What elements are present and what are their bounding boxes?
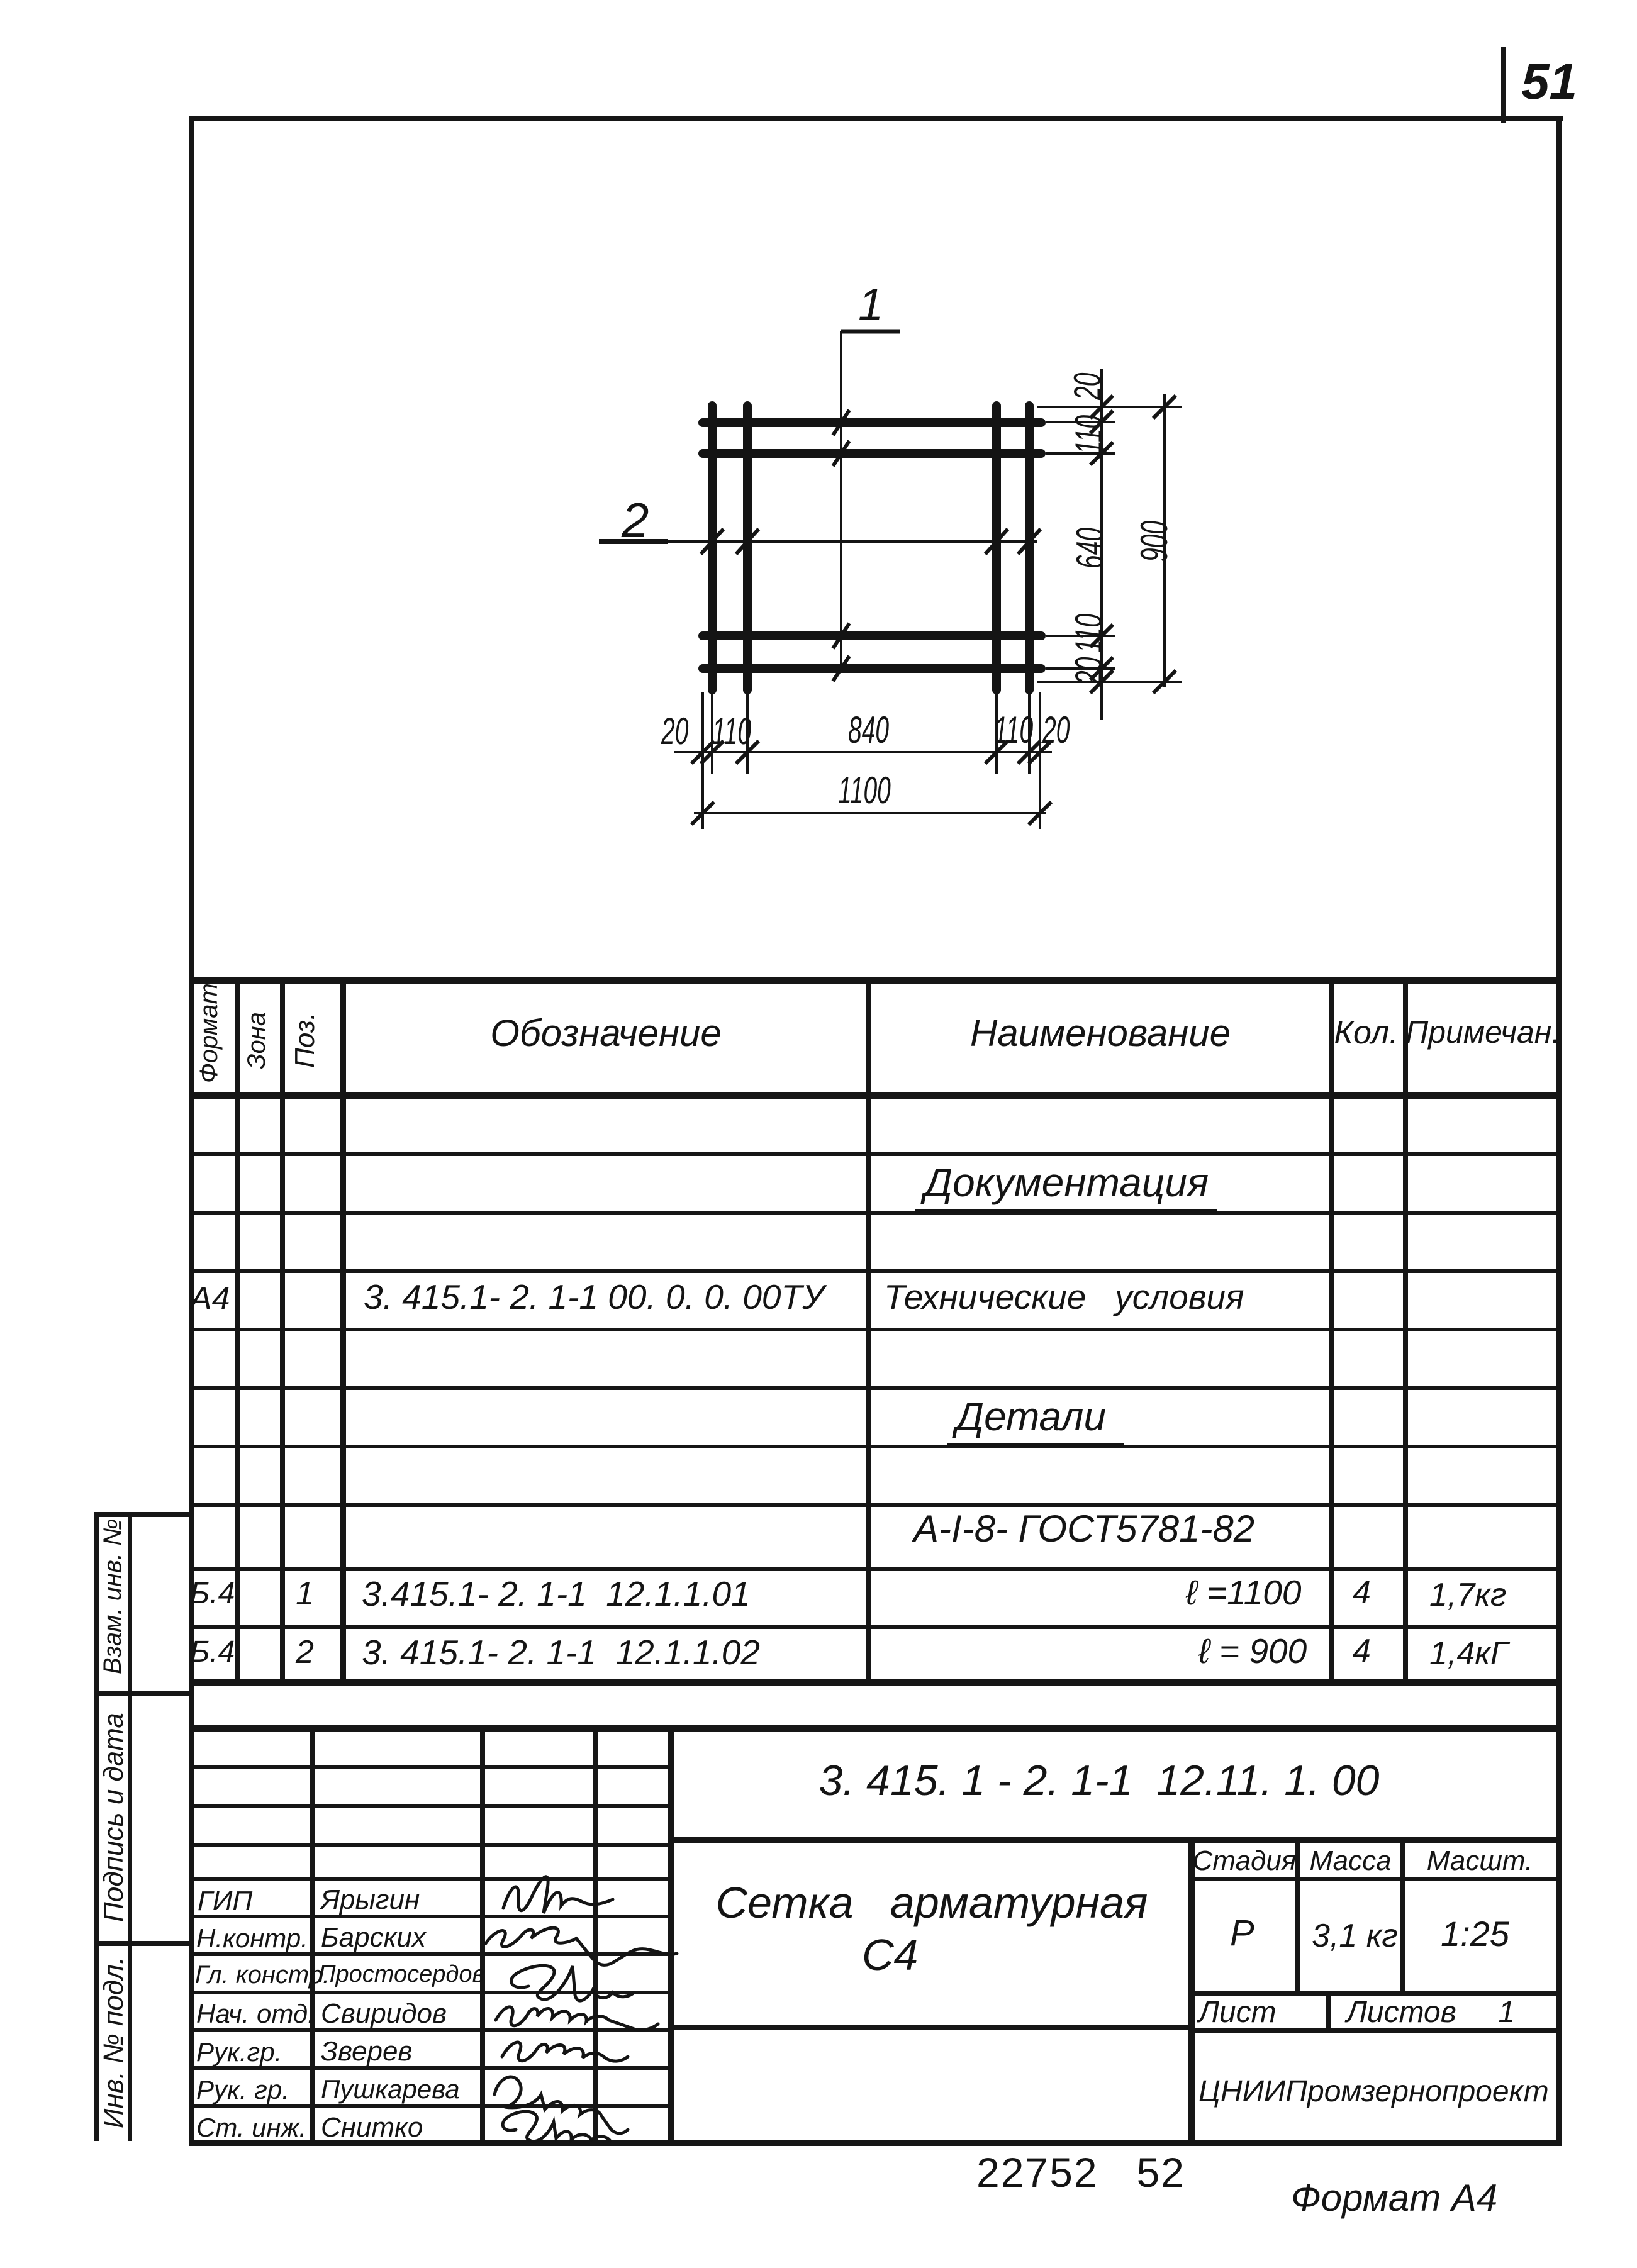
- title block upper row line 3: [189, 1843, 668, 1847]
- extension line right bar3: [1046, 635, 1115, 637]
- row 1 qty: [1353, 1574, 1371, 1611]
- sig label Ст.инж.: [196, 2113, 306, 2143]
- title block col line 1 (labels/names): [310, 1725, 315, 2142]
- frame bottom border: [189, 2140, 1562, 2146]
- sig name Барских: [321, 1922, 426, 1954]
- dim tick b6: [1029, 741, 1051, 764]
- page number tick line: [1501, 47, 1506, 123]
- label Масса: [1299, 1845, 1402, 1877]
- title block sig row line 5: [189, 2066, 668, 2070]
- dim tick r4: [1090, 625, 1113, 647]
- extension line bottom v3: [995, 692, 998, 774]
- dim tick 1100 right: [1029, 802, 1051, 825]
- value 1:25: [1441, 1913, 1509, 1954]
- header label Кол.: [1329, 1014, 1403, 1052]
- signature Простосердов: [511, 1965, 634, 2001]
- extension line bottom v1: [711, 692, 713, 774]
- org name ЦНИИПромзернопроект: [1198, 2074, 1549, 2109]
- dim tick b2: [701, 741, 724, 764]
- spec table header bottom line: [189, 1092, 1560, 1099]
- title С4: [862, 1930, 918, 1980]
- title block sig row line 0: [189, 1877, 668, 1881]
- dim label 900 (rotated): [1132, 521, 1176, 562]
- steel grade А-I-8-ГОСТ5781-82: [913, 1507, 1254, 1550]
- format note: [1291, 2176, 1497, 2220]
- dim tick r2: [1090, 411, 1113, 433]
- header label Формат (rotated): [195, 983, 223, 1083]
- dim label 840: [848, 708, 889, 752]
- row 2 qty: [1353, 1632, 1371, 1670]
- doc number cell bottom line: [668, 1837, 1561, 1843]
- dim label 110 (right lower, rotated): [1067, 614, 1110, 653]
- mesh vertical bar 2: [743, 406, 752, 690]
- dim tick b1: [691, 741, 714, 764]
- extension line right bar2: [1046, 452, 1115, 455]
- extension line right bar4: [1046, 667, 1115, 670]
- dim label 110 (bottom right): [994, 708, 1033, 752]
- right sub-table left line: [1188, 1837, 1195, 2146]
- dim label 110 (right upper, rotated): [1067, 415, 1110, 454]
- header label Наименование: [871, 1011, 1329, 1055]
- row 1 pos: [296, 1575, 314, 1613]
- mesh horizontal bar 2: [703, 449, 1041, 458]
- row designation 00.0.0.00ТУ: [364, 1277, 824, 1317]
- row 2 format Б.4: [190, 1635, 235, 1669]
- title block sig row line 3: [189, 1991, 668, 1994]
- spec table row line 4: [189, 1328, 1560, 1331]
- extension line right bar1: [1046, 421, 1115, 423]
- margin label Взам. инв. №: [99, 1519, 127, 1674]
- spec table row line 7: [189, 1503, 1560, 1507]
- dimension line right inner: [1100, 369, 1103, 720]
- mesh horizontal bar 1 (pos 1 top): [703, 418, 1041, 427]
- table column line Кол/Примечание: [1403, 977, 1408, 1684]
- title block top line: [189, 1725, 1560, 1732]
- row name Технические условия: [884, 1277, 1244, 1317]
- dimension line bottom inner: [674, 751, 1052, 753]
- title block sig row line 1: [189, 1915, 668, 1918]
- section heading Детали: [947, 1393, 1124, 1447]
- label Лист: [1198, 1995, 1277, 2030]
- dim tick 1100 left: [691, 802, 714, 825]
- sig name Простосердов: [318, 1961, 484, 1988]
- doc number text: [659, 1756, 1539, 1805]
- title block sig row line 4: [189, 2028, 668, 2032]
- row 2 mass: [1429, 1635, 1508, 1672]
- sig label Н.контр.: [196, 1923, 308, 1954]
- weld tick pos1 bar1: [833, 410, 849, 435]
- signature Пушкарева: [494, 2077, 628, 2133]
- sub-table col Масса/Масшт: [1400, 1837, 1405, 1994]
- signature Свиридов: [496, 2007, 658, 2030]
- callout label 1: [858, 279, 883, 331]
- row 1 length: [1186, 1572, 1301, 1613]
- margin section divider 2: [94, 1941, 190, 1946]
- row 1 mass: [1429, 1576, 1506, 1614]
- title block col line 4 (left part / right part): [668, 1725, 674, 2142]
- stamp number 22752 52: [976, 2148, 1185, 2196]
- row 1 format Б.4: [190, 1576, 235, 1611]
- sig name Ярыгин: [321, 1884, 420, 1916]
- spec table row line 1: [189, 1152, 1560, 1156]
- extension line right top: [1037, 406, 1182, 408]
- dim label 20 (right bottom, rotated): [1067, 657, 1110, 684]
- frame right border: [1556, 116, 1562, 2146]
- extension line bottom v2: [746, 692, 749, 774]
- extension line right bottom: [1037, 681, 1182, 683]
- row 2 pos: [296, 1633, 314, 1671]
- dim tick 900 top: [1153, 396, 1176, 418]
- signature Барских: [486, 1928, 677, 1965]
- frame left border: [189, 116, 194, 2146]
- mesh vertical bar 1 (pos 2): [708, 406, 717, 690]
- dim label 640 (rotated): [1068, 528, 1112, 569]
- header label Зона (rotated): [243, 1012, 271, 1069]
- row 2 designation: [362, 1632, 760, 1672]
- signature Ярыгин: [503, 1877, 613, 1913]
- header label Примечан.: [1405, 1014, 1560, 1050]
- margin label Подпись и дата: [98, 1713, 130, 1922]
- title block col line 3 (signatures/date): [593, 1725, 598, 2142]
- sig name Зверев: [321, 2036, 412, 2067]
- value 3,1кг: [1312, 1917, 1398, 1955]
- margin label Инв. № подл.: [98, 1949, 130, 2128]
- spec table row line 2: [189, 1211, 1560, 1215]
- spec table row line 6: [189, 1445, 1560, 1448]
- table column line Обозначение/Наименование: [866, 977, 871, 1684]
- value Р: [1230, 1912, 1254, 1954]
- weld tick pos1 bar2: [833, 441, 849, 466]
- title block upper row line 1: [189, 1765, 668, 1769]
- dim tick r1: [1090, 396, 1113, 418]
- spec table row line 5: [189, 1386, 1560, 1390]
- spec table row line 8: [189, 1567, 1560, 1571]
- spec table bottom line: [189, 1679, 1560, 1686]
- sig label Рук.гр.: [196, 2037, 282, 2067]
- table column line Поз/Обозначение: [340, 977, 346, 1684]
- table column line Зона/Поз: [280, 977, 285, 1684]
- weld tick pos1 bar3: [833, 623, 849, 648]
- line below Лист row: [1188, 2028, 1560, 2033]
- dim tick r5: [1090, 657, 1113, 680]
- col divider Лист/Листов: [1326, 1991, 1331, 2033]
- dim tick b5: [1018, 741, 1041, 764]
- dim tick b4: [985, 741, 1008, 764]
- dim label 20 (bottom far left): [661, 709, 688, 753]
- section heading Документация: [915, 1159, 1217, 1213]
- header label Поз. (rotated): [289, 1012, 321, 1068]
- weld tick pos2 bar2: [736, 529, 759, 554]
- sig label Гл. констр.: [195, 1961, 330, 1989]
- leader line for pos 1 shelf: [841, 330, 900, 334]
- label Масшт.: [1404, 1845, 1555, 1877]
- dim label 20 (bottom far right): [1042, 708, 1070, 752]
- row 1 designation: [362, 1574, 751, 1614]
- label Листов 1: [1346, 1995, 1515, 2030]
- dim tick b3: [736, 741, 759, 764]
- weld tick pos2 bar3: [985, 529, 1008, 554]
- sig name Пушкарева: [321, 2074, 460, 2104]
- left margin box outer: [94, 1512, 99, 2141]
- table column line Формат/Зона: [235, 977, 240, 1684]
- weld tick pos2 bar1: [701, 529, 724, 554]
- mesh vertical bar 3: [992, 406, 1001, 690]
- spec table row line 9: [189, 1625, 1560, 1629]
- header label Обозначение: [346, 1011, 866, 1055]
- extension line bottom v4: [1028, 692, 1031, 774]
- dimension line bottom outer (1100): [694, 812, 1046, 814]
- spec table row line 3: [189, 1269, 1560, 1273]
- callout label 2: [622, 492, 649, 549]
- mesh vertical bar 4: [1025, 406, 1034, 690]
- sub-table header bottom line: [1188, 1877, 1560, 1881]
- page number 51: [1521, 53, 1577, 111]
- extension line bottom right end: [1039, 692, 1041, 829]
- title block upper row line 2: [189, 1804, 668, 1808]
- line above Лист row: [1188, 1991, 1560, 1996]
- sig name Свиридов: [321, 1998, 447, 2030]
- label Стадия: [1192, 1845, 1297, 1877]
- dim label 20 (right top, rotated): [1066, 373, 1109, 400]
- margin section divider 1: [94, 1691, 190, 1696]
- leader line for pos 2: [664, 540, 1037, 543]
- extension line bottom left end: [701, 692, 704, 829]
- dimension line right outer (900): [1163, 394, 1166, 687]
- title block sig row line 6: [189, 2104, 668, 2108]
- leader line for pos 1 vertical: [840, 331, 842, 669]
- frame top border: [189, 116, 1563, 121]
- leader line for pos 2 shelf: [599, 539, 668, 544]
- signature Снитко: [503, 2111, 610, 2141]
- spec table top line: [189, 977, 1560, 984]
- sub-table col Стадия/Масса: [1295, 1837, 1300, 1994]
- left margin label column divider: [128, 1512, 132, 2141]
- row 2 length: [1198, 1631, 1307, 1671]
- dim tick r3: [1090, 442, 1113, 465]
- dim tick r6: [1090, 670, 1113, 693]
- mesh horizontal bar 4 (pos 1 bottom): [703, 664, 1041, 673]
- sig label ГИП: [198, 1886, 252, 1917]
- dim label 110 (bottom left): [712, 709, 751, 753]
- row А4 format cell: [190, 1280, 230, 1318]
- title name cell bottom line: [668, 2025, 1193, 2030]
- mesh horizontal bar 3: [703, 631, 1041, 640]
- weld tick pos1 bar4: [833, 656, 849, 681]
- weld tick pos2 bar4: [1018, 529, 1041, 554]
- signature Зверев: [502, 2042, 628, 2061]
- title block col line 2 (names/signatures): [480, 1725, 485, 2142]
- title Сетка арматурная: [674, 1877, 1190, 1928]
- dim tick 900 bottom: [1153, 670, 1176, 693]
- sig label Нач. отд.: [196, 1999, 315, 2029]
- sig label Рук. гр.: [196, 2075, 289, 2105]
- table column line Наименование/Кол: [1329, 977, 1334, 1684]
- sig name Снитко: [321, 2112, 423, 2143]
- title block sig row line 2: [189, 1952, 668, 1956]
- dim label 1100: [838, 769, 891, 812]
